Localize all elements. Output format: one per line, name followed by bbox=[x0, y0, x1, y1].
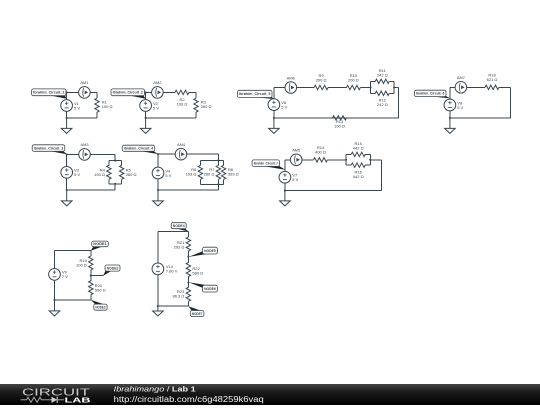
svg-text:Ibrahimango / Lab 1: Ibrahimango / Lab 1 bbox=[114, 384, 197, 393]
svg-text:AM7: AM7 bbox=[457, 75, 465, 80]
resistor R15 bbox=[346, 152, 370, 156]
svg-text:621 Ω: 621 Ω bbox=[487, 77, 498, 82]
svg-text:293 Ω: 293 Ω bbox=[174, 245, 185, 250]
wire bottom C8 bbox=[55, 299, 91, 301]
svg-text:AM1: AM1 bbox=[80, 80, 88, 85]
svg-text:Ibrahim_Circuit_1: Ibrahim_Circuit_1 bbox=[33, 91, 64, 95]
svg-text:NODE1: NODE1 bbox=[93, 242, 106, 246]
resistor R14 bbox=[307, 145, 335, 162]
wire V9 top stub bbox=[54, 251, 56, 269]
voltage source V1 bbox=[61, 100, 81, 112]
wire bottom left C6 bbox=[274, 117, 281, 119]
wire corner down to box C3 bbox=[114, 154, 116, 160]
svg-text:7 V: 7 V bbox=[62, 274, 68, 279]
node C4 ground junction bbox=[157, 189, 159, 191]
svg-text:http://circuitlab.com/c6g48259: http://circuitlab.com/c6g48259k6vaq bbox=[114, 395, 264, 404]
svg-text:5 V: 5 V bbox=[165, 173, 171, 178]
resistor R3 bbox=[194, 92, 212, 118]
svg-text:5 V: 5 V bbox=[74, 172, 80, 177]
wire bottom C7 bbox=[450, 117, 510, 119]
svg-text:Ibrahim_Circuit_4: Ibrahim_Circuit_4 bbox=[124, 147, 153, 151]
flag Ibrahim_Circuit_3 bbox=[32, 145, 67, 154]
svg-text:NODE3: NODE3 bbox=[95, 305, 105, 309]
wire V3 top stub bbox=[66, 154, 68, 166]
svg-text:500 Ω: 500 Ω bbox=[95, 287, 106, 292]
wire bottom C9 bbox=[158, 305, 189, 307]
voltage source V6 bbox=[268, 99, 288, 111]
svg-text:NODE6: NODE6 bbox=[204, 287, 216, 291]
voltage source V3 bbox=[61, 166, 81, 178]
node R21-R22 junction bbox=[187, 255, 189, 257]
svg-text:Ibrahim_Circuit_2: Ibrahim_Circuit_2 bbox=[113, 91, 143, 95]
wire right edge down C7 bbox=[509, 87, 511, 118]
wire pair to right edge bbox=[394, 87, 399, 89]
flag NODE3 bbox=[91, 300, 107, 310]
svg-text:7.80 V: 7.80 V bbox=[166, 269, 178, 274]
wire corner to AM6 bbox=[274, 87, 285, 89]
resistor R5 bbox=[120, 161, 124, 184]
resistor R12 bbox=[371, 91, 395, 95]
svg-text:AM6: AM6 bbox=[287, 75, 295, 80]
wire bottom C1 bbox=[67, 117, 97, 119]
svg-text:Ibrahim_Circuit_7: Ibrahim_Circuit_7 bbox=[254, 161, 278, 165]
wire top C8 bbox=[55, 250, 91, 252]
ammeter AM2 bbox=[152, 80, 164, 98]
node C1 ground junction bbox=[66, 117, 68, 119]
resistor R13 bbox=[280, 116, 398, 120]
resistor R6 bbox=[198, 160, 202, 184]
svg-text:100 Ω: 100 Ω bbox=[102, 104, 113, 109]
flag NODE5 bbox=[189, 247, 218, 257]
svg-text:442 Ω: 442 Ω bbox=[353, 174, 364, 179]
svg-text:NODE4: NODE4 bbox=[173, 224, 185, 228]
wire corner to AM5 bbox=[285, 159, 291, 161]
svg-text:442 Ω: 442 Ω bbox=[353, 145, 364, 150]
resistor R4 bbox=[107, 161, 111, 184]
svg-text:5 V: 5 V bbox=[292, 177, 298, 182]
svg-text:260 Ω: 260 Ω bbox=[204, 172, 215, 177]
flag NODE1 bbox=[91, 241, 108, 251]
svg-text:193 Ω: 193 Ω bbox=[94, 172, 105, 177]
wire bottom C3 bbox=[67, 189, 116, 191]
wire box bottom C4 bbox=[200, 183, 223, 185]
voltage source V7 bbox=[279, 171, 299, 183]
wire V1 bottom stub bbox=[66, 111, 68, 118]
wire R9 to R10 bbox=[335, 87, 339, 89]
flag NODE6 bbox=[189, 282, 218, 292]
wire V8 top stub bbox=[449, 87, 451, 99]
wire V4 top stub bbox=[157, 154, 159, 167]
resistor R21 bbox=[186, 231, 190, 256]
flag Ibrahim_Circuit_5 bbox=[238, 90, 275, 99]
flag NODE4 bbox=[171, 223, 188, 232]
ammeter AM3 bbox=[79, 142, 91, 160]
ground C5 bbox=[280, 191, 291, 206]
ground C8 bbox=[49, 300, 60, 316]
svg-text:400 Ω: 400 Ω bbox=[315, 150, 326, 155]
resistor R18 bbox=[478, 73, 506, 90]
ground C3 bbox=[61, 190, 72, 206]
node C6 ground junction bbox=[273, 117, 275, 119]
node box bottom C3 bbox=[114, 183, 116, 185]
flag Ibrahim_Circuit_7 bbox=[252, 160, 285, 170]
wire V6 top stub bbox=[273, 88, 275, 99]
node box top C4 bbox=[217, 159, 219, 161]
node V2 top junction bbox=[145, 91, 147, 93]
wire AM1 to R1 bbox=[90, 91, 97, 93]
node R19-R20 junction bbox=[90, 275, 92, 277]
svg-text:260 Ω: 260 Ω bbox=[126, 172, 137, 177]
wire bottom C2 bbox=[146, 117, 196, 119]
wire V10 top stub bbox=[157, 231, 159, 263]
svg-text:5 V: 5 V bbox=[74, 105, 80, 110]
node C9 ground junction bbox=[157, 305, 159, 307]
CircuitLab logo schematic line with resistor and diode bbox=[21, 397, 65, 402]
ammeter AM7 bbox=[455, 75, 467, 93]
wire pair right vertical C5 bbox=[369, 154, 371, 165]
flag Ibrahim_Circuit_4 bbox=[122, 145, 158, 154]
wire right edge down C5 bbox=[381, 160, 383, 191]
wire AM3 to corner bbox=[90, 153, 115, 155]
wire V6 bottom stub bbox=[273, 110, 275, 118]
svg-text:100 Ω: 100 Ω bbox=[76, 263, 87, 268]
wire V2 bottom stub bbox=[145, 111, 147, 118]
wire into node L bbox=[367, 87, 370, 89]
resistor R22 bbox=[186, 257, 190, 283]
wire V7 bottom stub bbox=[284, 183, 286, 191]
ammeter AM6 bbox=[285, 75, 297, 93]
resistor R7 bbox=[216, 160, 220, 184]
wire box top C3 bbox=[109, 160, 122, 162]
svg-text:200 Ω: 200 Ω bbox=[316, 77, 327, 82]
node box top C3 bbox=[114, 160, 116, 162]
wire AM5 to R14 bbox=[302, 159, 307, 161]
node pair left C5 bbox=[345, 159, 347, 161]
wire V2 top stub bbox=[145, 92, 147, 99]
wire AM7 to R18 bbox=[467, 86, 478, 88]
wire corner down to box C4 bbox=[217, 154, 219, 160]
resistor R19 bbox=[89, 251, 93, 276]
svg-text:242 Ω: 242 Ω bbox=[377, 102, 388, 107]
wire V4 bottom stub bbox=[157, 179, 159, 190]
flag Ibrahim_Circuit_6 bbox=[415, 90, 451, 98]
wire parallel left vertical bbox=[370, 81, 372, 93]
node C5 ground junction bbox=[284, 190, 286, 192]
svg-text:NODE5: NODE5 bbox=[204, 249, 216, 253]
wire AM2 to R2 bbox=[163, 91, 168, 93]
wire V3 bottom stub bbox=[66, 178, 68, 190]
svg-text:AM5: AM5 bbox=[292, 148, 300, 153]
node C7 ground junction bbox=[449, 117, 451, 119]
svg-text:AM3: AM3 bbox=[81, 142, 89, 147]
wire V1 top stub bbox=[66, 92, 68, 99]
wire node to AM2 bbox=[146, 91, 152, 93]
flag NODE2 bbox=[103, 265, 120, 276]
wire R14 to pair bbox=[335, 159, 347, 161]
wire top C9 bbox=[158, 230, 189, 232]
wire pair to right edge C5 bbox=[370, 159, 381, 161]
ground C6 bbox=[269, 118, 280, 133]
svg-text:NODE2: NODE2 bbox=[107, 266, 119, 270]
ground C9 bbox=[153, 306, 164, 316]
voltage source V2 bbox=[140, 100, 160, 112]
svg-text:Ibrahim_Circuit_3: Ibrahim_Circuit_3 bbox=[34, 146, 64, 150]
resistor R20 bbox=[89, 276, 93, 300]
node V3 top junction bbox=[66, 153, 68, 155]
wire pair left vertical C5 bbox=[345, 154, 347, 165]
svg-text:580 Ω: 580 Ω bbox=[192, 270, 203, 275]
svg-text:NODE7: NODE7 bbox=[192, 312, 202, 316]
ground C1 bbox=[61, 118, 72, 133]
resistor R1 bbox=[95, 92, 113, 118]
ammeter AM1 bbox=[79, 80, 91, 98]
wire bottom C5 bbox=[285, 190, 382, 192]
svg-text:86.3 Ω: 86.3 Ω bbox=[173, 294, 185, 299]
flag NODE7 bbox=[188, 306, 204, 316]
voltage source V9 bbox=[49, 269, 69, 281]
svg-text:Ibrahim_Circuit_6: Ibrahim_Circuit_6 bbox=[416, 92, 444, 96]
resistor R16 bbox=[346, 163, 370, 167]
voltage source V8 bbox=[444, 99, 464, 111]
node C2 ground junction bbox=[145, 117, 147, 119]
voltage source V10 bbox=[152, 263, 178, 275]
wire box bottom C3 bbox=[109, 183, 122, 185]
ammeter AM5 bbox=[290, 148, 302, 166]
wire box feed down C3 bbox=[114, 184, 116, 190]
node parallel right bbox=[393, 86, 395, 88]
wire node to AM3 bbox=[67, 153, 79, 155]
wire V9 bottom stub bbox=[54, 280, 56, 300]
svg-text:5 V: 5 V bbox=[457, 105, 463, 110]
ammeter AM4 bbox=[175, 142, 187, 160]
flag Ibrahim_Circuit_1 bbox=[32, 89, 67, 99]
node pair right C5 bbox=[369, 159, 371, 161]
svg-text:200 Ω: 200 Ω bbox=[348, 77, 359, 82]
svg-text:LAB: LAB bbox=[65, 396, 92, 405]
svg-text:Ibrahim_Circuit_5: Ibrahim_Circuit_5 bbox=[239, 92, 270, 96]
node V1 top junction bbox=[66, 91, 68, 93]
svg-text:100 Ω: 100 Ω bbox=[334, 124, 345, 129]
wire AM4 to corner bbox=[187, 153, 219, 155]
wire bottom C4 bbox=[158, 189, 218, 191]
wire right edge down bbox=[398, 88, 400, 118]
node C8 ground junction bbox=[53, 299, 55, 301]
voltage source V4 bbox=[152, 167, 172, 179]
svg-text:242 Ω: 242 Ω bbox=[377, 72, 388, 77]
svg-text:5 V: 5 V bbox=[153, 105, 159, 110]
wire V7 top stub bbox=[284, 160, 286, 172]
svg-text:AM4: AM4 bbox=[177, 142, 186, 147]
svg-text:AM2: AM2 bbox=[153, 80, 161, 85]
wire AM6 to R9 bbox=[297, 87, 308, 89]
wire corner to AM7 bbox=[450, 86, 455, 88]
node V4 top junction bbox=[157, 153, 159, 155]
wire box feed down C4 bbox=[217, 184, 219, 190]
wire parallel right vertical bbox=[393, 81, 395, 93]
node R22-R23 junction bbox=[187, 281, 189, 283]
node C3 ground junction bbox=[66, 189, 68, 191]
svg-text:5 V: 5 V bbox=[281, 104, 287, 109]
svg-text:393 Ω: 393 Ω bbox=[228, 172, 239, 177]
resistor R8 bbox=[221, 160, 225, 184]
wire R18 to right edge bbox=[506, 86, 510, 88]
flag Ibrahim_Circuit_2 bbox=[111, 89, 146, 99]
node box bottom C4 bbox=[217, 183, 219, 185]
wire box top C4 bbox=[200, 159, 223, 161]
svg-text:193 Ω: 193 Ω bbox=[186, 172, 197, 177]
wire V10 bottom stub bbox=[157, 275, 159, 307]
svg-text:260 Ω: 260 Ω bbox=[201, 104, 212, 109]
svg-text:193 Ω: 193 Ω bbox=[177, 102, 188, 107]
ground C7 bbox=[445, 118, 456, 133]
ground C2 bbox=[140, 118, 151, 133]
wire node to AM4 bbox=[158, 153, 175, 155]
resistor R23 bbox=[186, 283, 190, 307]
resistor R11 bbox=[371, 79, 395, 83]
resistor R2 bbox=[168, 90, 196, 106]
resistor R10 bbox=[339, 73, 367, 90]
resistor R9 bbox=[307, 73, 335, 90]
wire V8 bottom stub bbox=[449, 111, 451, 118]
wire node to AM1 bbox=[67, 91, 79, 93]
node parallel left bbox=[369, 86, 371, 88]
wire NODE2 stub bbox=[91, 275, 104, 277]
ground C4 bbox=[153, 190, 164, 206]
